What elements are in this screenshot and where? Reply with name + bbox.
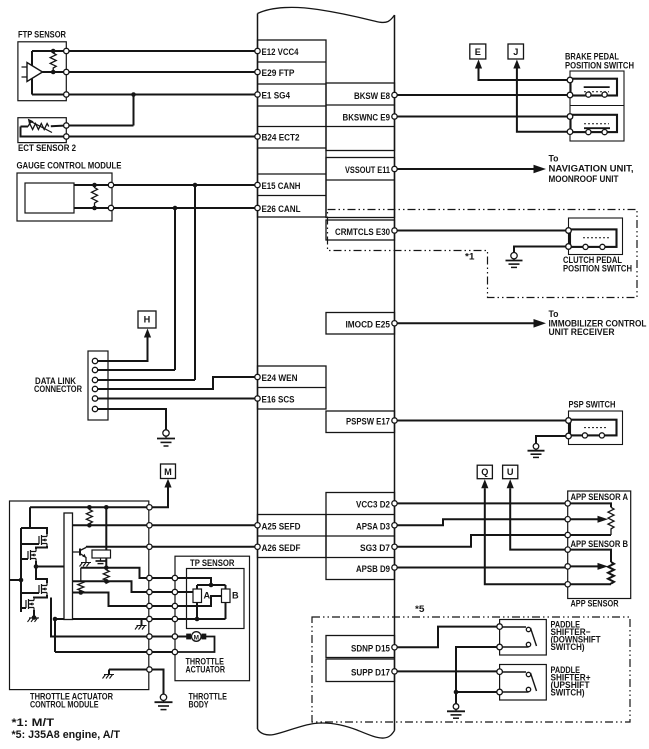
wire DLC pin2 (CANL): [95, 369, 175, 371]
svg-text:A25 SEFD: A25 SEFD: [262, 521, 301, 531]
wire DLC pin1 to connector H: [95, 335, 148, 361]
wire node 567 jog to col pin: [81, 568, 150, 578]
left trunk wire: [21, 528, 39, 612]
APP sensor box: [568, 491, 631, 599]
resistor R3: [78, 568, 84, 594]
svg-text:SWITCH): SWITCH): [551, 688, 585, 698]
ground (hatch) below Q4: [28, 618, 40, 622]
TP sensor box: [187, 569, 245, 629]
pin terminal circles: [64, 48, 608, 695]
svg-text:E1 SG4: E1 SG4: [262, 91, 291, 101]
wire W1 left drop: [21, 507, 47, 534]
wire APSA D3 to APP sensor A: [395, 519, 568, 525]
svg-text:SDNP D15: SDNP D15: [351, 643, 390, 653]
wire IMOCD E25 to immobilizer: [395, 309, 647, 337]
svg-text:PSP SWITCH: PSP SWITCH: [569, 400, 616, 410]
throttle actuator control module box: [10, 501, 149, 690]
svg-text:*1: *1: [465, 252, 475, 262]
pin box group: VSSOUT E11: [326, 158, 395, 218]
svg-text:ACTUATOR: ACTUATOR: [186, 665, 226, 675]
svg-text:PSPSW E17: PSPSW E17: [346, 417, 390, 427]
ground (hatch) TACM internal rail: [103, 675, 115, 679]
transistor Q5 (bipolar, relay driver): [73, 547, 87, 562]
potentiometer A body: [193, 589, 202, 603]
wire clutch switch to ground: [514, 247, 569, 253]
wire SDNP D15 to downshift switch: [395, 627, 500, 648]
data link connector body: [88, 351, 108, 420]
wire throttle ground: [149, 670, 163, 695]
svg-text:ECT SENSOR 2: ECT SENSOR 2: [18, 143, 76, 153]
brake switch 1 (normally open): [571, 79, 618, 96]
relay coil ground stub: [100, 558, 102, 561]
svg-text:APSA D3: APSA D3: [356, 521, 390, 531]
svg-text:J: J: [513, 47, 518, 57]
wire DLC pin3 (CANH): [95, 379, 195, 381]
op-amp output wire: [43, 71, 67, 73]
wire CANH drop to DLC: [194, 185, 196, 380]
svg-text:APSB D9: APSB D9: [356, 564, 390, 574]
op-amp supply taps: [31, 51, 33, 95]
connector bar strip in TACM: [64, 513, 73, 620]
wire A25 SEFD: [73, 524, 258, 526]
component labels (left): [17, 30, 122, 395]
resistor R2: [103, 568, 109, 583]
FTP sensor box: [18, 42, 66, 101]
svg-text:APP SENSOR B: APP SENSOR B: [571, 539, 629, 549]
junction dots (left area): [51, 49, 197, 211]
connector Q box: [477, 465, 492, 488]
wire connector Q to APP sensor: [485, 488, 568, 584]
wire CANL drop to DLC: [174, 208, 176, 370]
wire TP wiper B: [175, 596, 222, 606]
paddle shifter - (downshift switch): [500, 620, 547, 656]
pin labels left side: [262, 47, 301, 553]
svg-text:E15 CANH: E15 CANH: [262, 181, 301, 191]
throttle body box: [175, 556, 250, 681]
pin box group: CRMTCLS E30: [326, 220, 395, 240]
wire A26 SEDF: [86, 546, 258, 548]
svg-text:CONTROL MODULE: CONTROL MODULE: [30, 700, 99, 710]
wire brake switch to connector E: [479, 64, 571, 81]
svg-text:CRMTCLS E30: CRMTCLS E30: [335, 227, 390, 237]
svg-text:A: A: [204, 591, 211, 601]
wire node 581 jog to col pin: [73, 581, 150, 592]
transistor Q1-Q2 interconnect: [36, 546, 47, 549]
svg-text:VSSOUT E11: VSSOUT E11: [345, 165, 390, 175]
connector J box: [508, 44, 524, 69]
wire CRMTCLS E30 to clutch switch: [395, 230, 569, 232]
wiper arrow APP A: [598, 516, 609, 523]
svg-text:POSITION SWITCH: POSITION SWITCH: [565, 60, 634, 70]
wire FTP VCC to E12 VCC4: [32, 50, 258, 52]
svg-text:H: H: [144, 315, 151, 325]
svg-text:BODY: BODY: [189, 700, 209, 710]
paddle shifter + (upshift switch): [500, 665, 547, 701]
junction dot paddle ground: [454, 690, 459, 695]
potentiometer B body: [222, 589, 231, 603]
labels paddle shifters: [551, 620, 601, 698]
op-amp U (FTP sensor): [27, 63, 43, 82]
ground (hatch) below Q5: [80, 563, 92, 567]
wire BKSWNC E9 to brake switch: [395, 116, 571, 118]
wire FTP ground to E1 SG4: [32, 94, 258, 96]
transistor Q3-Q4 interconnect: [34, 595, 47, 598]
wire APSB D9 to APP sensor B: [395, 567, 568, 569]
ground G5 (PSP switch): [528, 444, 545, 458]
wire ECT signal to B24 ECT2: [66, 136, 257, 138]
svg-text:CONNECTOR: CONNECTOR: [34, 384, 82, 394]
ECM/PCM band top tear wave: [258, 7, 395, 22]
wire FTP signal to E29 FTP: [66, 71, 257, 73]
PSP switch: [569, 411, 623, 445]
wire TACM internal ground rail: [109, 670, 149, 675]
wire DLC pin6 to ground: [95, 409, 166, 430]
pin box group: BKSW E8 / BKSWNC E9: [326, 83, 395, 151]
ground G3 (throttle body): [155, 694, 173, 710]
svg-text:TP SENSOR: TP SENSOR: [190, 558, 235, 568]
ground G1 (data link connector): [157, 430, 175, 446]
pin box: SUPP D17: [326, 659, 395, 682]
thermistor ECT sensor 2: [28, 124, 49, 130]
svg-text:BKSW E8: BKSW E8: [354, 91, 390, 101]
wire connector U to APP sensor: [510, 488, 568, 549]
pin box group: E24 WEN / E16 SCS: [258, 366, 327, 409]
svg-text:APP SENSOR: APP SENSOR: [571, 599, 619, 609]
svg-text:E26 CANL: E26 CANL: [262, 204, 301, 214]
wire brake switch to connector J: [517, 64, 570, 132]
svg-text:*1: M/T: *1: M/T: [12, 717, 55, 729]
wires TACM to throttle body: [149, 578, 175, 652]
svg-text:SWITCH): SWITCH): [551, 642, 585, 652]
pin box: PSPSW E17: [326, 411, 395, 433]
wire TP VCC: [175, 578, 226, 589]
gauge control module box: [17, 173, 112, 221]
wire ECT sense branch to SG4: [66, 95, 133, 126]
svg-text:E24 WEN: E24 WEN: [262, 373, 298, 383]
svg-text:E12 VCC4: E12 VCC4: [262, 47, 300, 57]
svg-text:Q: Q: [481, 467, 488, 477]
junction dots (TACM area): [19, 505, 214, 621]
svg-text:GAUGE CONTROL MODULE: GAUGE CONTROL MODULE: [17, 161, 122, 171]
svg-text:APP SENSOR A: APP SENSOR A: [571, 492, 629, 502]
wire motor feed: [175, 636, 188, 638]
pin box group: E12/E29/E1/B24/E15/E26: [258, 40, 395, 682]
svg-text:B24 ECT2: B24 ECT2: [262, 133, 300, 143]
svg-text:SG3 D7: SG3 D7: [360, 543, 390, 553]
wire Q2 source to bar tap: [36, 561, 64, 583]
wire DLC pin4 to E24 WEN: [95, 377, 258, 389]
svg-text:*5: *5: [415, 604, 425, 614]
connector H box: [138, 311, 156, 338]
ground G6 (paddle shifters): [447, 704, 465, 719]
svg-text:*5: J35A8 engine, A/T: *5: J35A8 engine, A/T: [12, 729, 121, 741]
wire Q4 source to ground: [33, 610, 35, 618]
svg-text:U: U: [507, 467, 514, 477]
pin labels right side: [335, 91, 390, 677]
svg-text:NAVIGATION UNIT,: NAVIGATION UNIT,: [549, 164, 634, 174]
wiper arrow APP B: [598, 563, 609, 570]
pin box: SDNP D15: [326, 636, 395, 658]
dashed option box *1 (clutch, M/T): [328, 210, 638, 298]
potentiometer APP A: [568, 503, 611, 507]
connector U box: [503, 465, 518, 488]
wire DLC pin5 to E16 SCS: [95, 398, 258, 400]
svg-text:M: M: [194, 634, 199, 641]
svg-text:SUPP D17: SUPP D17: [351, 668, 390, 678]
svg-text:UNIT RECEIVER: UNIT RECEIVER: [549, 327, 615, 337]
resistor R1: [86, 507, 92, 525]
svg-text:A26 SEDF: A26 SEDF: [262, 543, 301, 553]
gauge module internal wires: [74, 185, 111, 208]
ECM/PCM main band right edge: [394, 15, 396, 731]
transistor Q4: [24, 598, 34, 610]
svg-text:VCC3 D2: VCC3 D2: [356, 500, 390, 510]
wire BKSW E8 to brake switch: [395, 94, 571, 96]
connector M box: [161, 464, 176, 488]
wire VSSOUT E11 to navigation unit: [395, 153, 634, 184]
terminating resistor in gauge module: [92, 185, 98, 208]
wire W1 drop to relay coil: [105, 507, 107, 550]
svg-text:IMOCD E25: IMOCD E25: [346, 319, 391, 329]
svg-text:M: M: [164, 467, 172, 477]
wire TACM case to trunk: [10, 579, 22, 581]
brake switch 2 (normally closed): [571, 115, 618, 132]
svg-text:E: E: [475, 47, 481, 57]
svg-text:B: B: [232, 591, 239, 601]
dashed option box *5 (paddle shifters, A/T): [312, 617, 630, 722]
wire SUPP D17 to upshift switch: [395, 670, 500, 672]
wire SG3 D7 to APP sensor: [395, 535, 568, 547]
wire relay to node: [105, 558, 107, 568]
wire TP wiper A: [175, 591, 193, 593]
throttle actuator motor: [186, 632, 206, 642]
wire motor drive 1: [51, 598, 149, 637]
pin box: IMOCD E25: [326, 313, 395, 335]
svg-text:BKSWNC E9: BKSWNC E9: [343, 113, 391, 123]
svg-text:MOONROOF UNIT: MOONROOF UNIT: [549, 174, 619, 184]
wire upshift switch to ground rail: [456, 691, 500, 693]
transistor Q1: [37, 534, 47, 546]
wire PSP switch to ground: [536, 436, 569, 444]
wire W1 to connector M: [149, 483, 168, 507]
svg-text:E16 SCS: E16 SCS: [262, 395, 295, 405]
wire PSPSW E17 to PSP switch: [395, 420, 569, 422]
svg-text:E29 FTP: E29 FTP: [262, 68, 295, 78]
clutch pedal position switch: [569, 218, 623, 255]
wire CAN high to E15 CANH: [111, 184, 258, 186]
ECM/PCM main band left edge: [257, 14, 259, 730]
wire motor return loop: [175, 637, 215, 653]
wire W1 top rail in TACM: [30, 506, 149, 508]
wire 619 rail with ground branch: [55, 619, 149, 626]
ground G4 (clutch switch): [506, 253, 523, 268]
connector E box: [470, 44, 486, 69]
transistor Q3: [32, 583, 47, 595]
resistor in FTP sensor: [50, 51, 56, 72]
wire CAN low to E26 CANL: [111, 207, 258, 209]
brake pedal position switch assembly: [570, 71, 624, 141]
svg-text:POSITION SWITCH: POSITION SWITCH: [563, 264, 632, 274]
wire downshift switch to ground rail: [456, 647, 500, 704]
relay coil K1: [92, 550, 111, 558]
ground (hatch) wire-619 branch: [135, 626, 147, 630]
svg-text:To: To: [549, 153, 559, 163]
wire node 592 jog to col pin: [73, 593, 150, 607]
wire TP ground: [175, 603, 226, 620]
ECM/PCM band bottom tear wave: [258, 723, 395, 738]
pin box group: VCC3/APSA/SG3/APSB: [326, 493, 395, 580]
ECT sensor 2 box: [18, 118, 66, 143]
svg-text:FTP SENSOR: FTP SENSOR: [18, 30, 66, 40]
wire motor drive 2: [55, 619, 149, 652]
wire VCC3 D2 to APP sensor: [395, 502, 568, 504]
pin box group: A25 SEFD / A26 SEDF: [258, 515, 327, 558]
transistor Q2: [21, 549, 36, 561]
component labels (bottom left): [30, 558, 239, 710]
potentiometer APP B: [568, 550, 611, 562]
